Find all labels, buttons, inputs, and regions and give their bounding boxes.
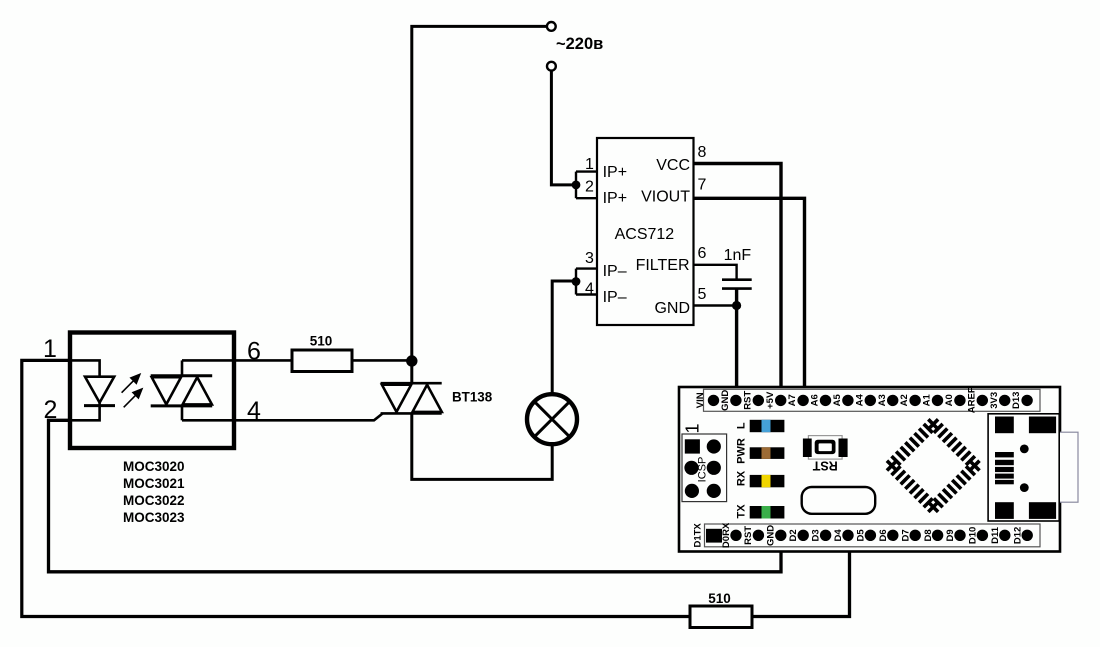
svg-text:A0: A0	[944, 394, 955, 406]
svg-text:D2: D2	[788, 529, 799, 541]
svg-text:D8: D8	[923, 529, 934, 541]
svg-text:D9: D9	[945, 529, 956, 541]
svg-text:IP–: IP–	[603, 263, 627, 280]
svg-text:MOC3022: MOC3022	[123, 493, 185, 508]
svg-text:8: 8	[698, 144, 707, 161]
svg-text:2: 2	[585, 179, 594, 196]
svg-text:510: 510	[310, 334, 333, 349]
RST button	[803, 436, 848, 460]
bottom pin header strip	[705, 524, 1041, 547]
junction: IP+ bracket	[572, 181, 581, 190]
top header labels	[695, 387, 1022, 413]
wire: MOC pin1 loop to Arduino via R2	[22, 360, 690, 616]
wire: pin5 GND junction to Arduino GND	[694, 304, 737, 306]
ICSP header	[682, 434, 727, 502]
svg-text:3V3: 3V3	[989, 392, 1000, 409]
svg-text:D6: D6	[878, 529, 889, 541]
svg-text:D3: D3	[811, 529, 822, 541]
svg-text:MOC3021: MOC3021	[123, 476, 185, 491]
svg-text:D0RX: D0RX	[721, 522, 732, 548]
svg-text:A2: A2	[899, 394, 910, 406]
wire: terminal 2 down to ACS712 IP+ bracket	[551, 71, 576, 185]
terminal: AC source top	[547, 22, 556, 31]
wire: MOC pin2 loop to Arduino D2	[49, 420, 782, 572]
svg-text:A7: A7	[787, 394, 798, 406]
svg-text:5: 5	[698, 286, 707, 303]
svg-text:1: 1	[683, 423, 703, 433]
wire: pin8 VCC to Arduino +5V	[694, 164, 782, 399]
svg-text:BT138: BT138	[452, 390, 493, 405]
svg-text:ICSP: ICSP	[697, 457, 709, 483]
wire: MOC pin6 to resistor R1	[182, 359, 292, 362]
svg-text:D13: D13	[1011, 392, 1022, 409]
svg-text:L: L	[736, 422, 748, 429]
svg-text:VCC: VCC	[656, 157, 690, 174]
svg-text:7: 7	[698, 176, 707, 193]
svg-text:RX: RX	[736, 470, 748, 486]
bottom header pins	[730, 530, 1033, 541]
svg-text:IP+: IP+	[603, 164, 627, 181]
svg-text:FILTER: FILTER	[636, 257, 690, 274]
bottom header square pin D1/TX	[706, 529, 722, 543]
svg-text:RST: RST	[743, 526, 754, 545]
svg-text:A5: A5	[832, 394, 843, 407]
light arrows of optocoupler	[122, 374, 142, 407]
svg-text:VIOUT: VIOUT	[641, 188, 690, 205]
bottom header labels	[693, 522, 1024, 548]
svg-text:D4: D4	[833, 529, 844, 542]
MCU chip (rotated QFP)	[882, 414, 984, 516]
top header pins	[708, 395, 1033, 406]
svg-text:1nF: 1nF	[724, 247, 752, 264]
capacitor C1 1nF	[722, 278, 752, 281]
svg-text:A4: A4	[854, 394, 865, 407]
pin stubs 1+2 bracket	[576, 172, 597, 199]
svg-text:A3: A3	[877, 394, 888, 406]
svg-text:GND: GND	[654, 300, 690, 317]
svg-text:VIN: VIN	[695, 392, 706, 408]
lamp	[527, 394, 577, 444]
pin stubs 3+4 bracket	[576, 269, 597, 295]
junction node at triac	[406, 355, 417, 366]
svg-text:4: 4	[585, 281, 594, 298]
svg-text:+5V: +5V	[765, 391, 776, 409]
current sensor U2 ACS712 box	[597, 138, 694, 325]
svg-text:D1TX: D1TX	[693, 523, 704, 548]
triac BT138	[381, 383, 442, 413]
svg-text:3: 3	[585, 250, 594, 267]
resistor R2 510	[690, 606, 752, 628]
photo-triac inside optocoupler	[151, 360, 213, 420]
svg-text:IP–: IP–	[603, 289, 627, 306]
top pin header strip	[704, 389, 1041, 411]
junction: GND node	[732, 301, 741, 310]
svg-text:~220в: ~220в	[556, 35, 603, 53]
LED D1 inside optocoupler	[68, 360, 115, 420]
svg-text:PWR: PWR	[736, 438, 748, 464]
resistor R1 510	[292, 350, 352, 372]
crystal oscillator	[802, 487, 876, 514]
svg-text:MOC3023: MOC3023	[123, 510, 185, 525]
svg-text:D10: D10	[968, 527, 979, 544]
terminal: AC source bottom	[547, 62, 556, 71]
svg-text:1: 1	[585, 156, 594, 173]
USB connector	[988, 414, 1078, 521]
wire: ACS712 IP- bracket to lamp top	[552, 281, 576, 394]
svg-text:GND: GND	[766, 525, 777, 546]
svg-text:A6: A6	[810, 394, 821, 406]
junction: IP- bracket	[572, 277, 581, 286]
svg-text:D5: D5	[856, 529, 867, 542]
svg-text:TX: TX	[736, 504, 748, 519]
svg-text:IP+: IP+	[603, 190, 627, 207]
svg-text:510: 510	[708, 591, 731, 606]
wire: MOC pin4 to BT138 gate	[182, 413, 383, 420]
wire: lamp bottom to BT138 bottom rail	[412, 413, 552, 479]
svg-text:GND: GND	[720, 390, 731, 411]
optocoupler U1 MOC30xx box	[70, 333, 234, 449]
wire: AC terminal 1 to main vertical node	[412, 26, 547, 383]
svg-text:D12: D12	[1012, 527, 1023, 544]
wire: R2 to Arduino D5	[752, 538, 850, 617]
svg-text:RST: RST	[812, 459, 837, 473]
svg-text:AREF: AREF	[966, 387, 977, 413]
svg-text:6: 6	[698, 245, 707, 262]
Arduino Nano board outline	[679, 387, 1060, 552]
svg-text:D7: D7	[900, 529, 911, 541]
svg-text:D11: D11	[990, 526, 1001, 544]
wire: R1 to node	[352, 359, 412, 362]
svg-text:A1: A1	[922, 394, 933, 407]
wire: pin7 VIOUT to Arduino A7	[694, 198, 805, 398]
svg-text:ACS712: ACS712	[615, 226, 675, 243]
svg-text:RST: RST	[742, 391, 753, 410]
wire: pin6 FILTER to capacitor	[694, 265, 737, 280]
svg-text:MOC3020: MOC3020	[123, 459, 185, 474]
